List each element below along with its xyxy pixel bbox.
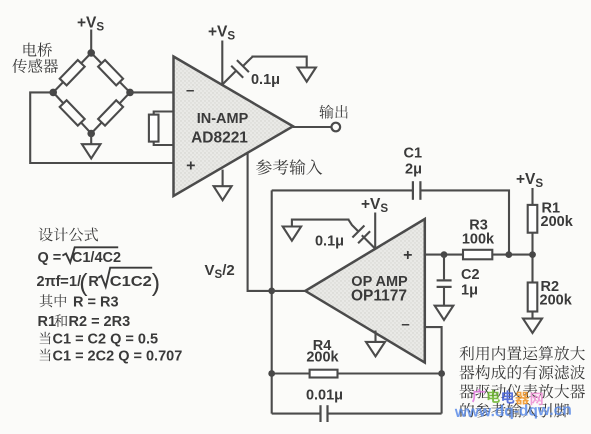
svg-text:200k: 200k bbox=[306, 350, 339, 366]
wire cap to ground (op-amp) bbox=[292, 220, 350, 227]
wire op-amp - input bbox=[425, 327, 442, 373]
label design formulas 设计公式 bbox=[39, 228, 99, 242]
svg-text:C1C2: C1C2 bbox=[110, 274, 152, 290]
wire output bbox=[293, 126, 332, 128]
resistor R3 bbox=[463, 250, 492, 259]
label bridge sensor 电桥传感器 bbox=[24, 43, 53, 57]
svg-text:R = R3: R = R3 bbox=[73, 294, 119, 310]
wire in-amp to ground bbox=[222, 170, 224, 187]
op-amp U2 OP1177 body bbox=[305, 219, 425, 363]
resistor RG bbox=[149, 115, 159, 142]
node bridge bottom bbox=[87, 130, 95, 138]
svg-text:200k: 200k bbox=[541, 214, 574, 230]
wire R2 to ground bbox=[531, 312, 533, 320]
svg-text:1μ: 1μ bbox=[461, 283, 478, 299]
wire reference input bbox=[248, 152, 271, 291]
capacitor C bypass 0.1u (in-amp) bbox=[223, 71, 236, 84]
svg-text:100k: 100k bbox=[462, 232, 495, 248]
svg-text:R2 = 2R3: R2 = 2R3 bbox=[69, 314, 131, 330]
wire +VS to in-amp bbox=[221, 41, 223, 86]
wire cap to ground (in-amp) bbox=[252, 57, 307, 68]
svg-text:–: – bbox=[401, 316, 409, 333]
node B bbox=[505, 251, 512, 258]
wire RG stub bottom bbox=[154, 141, 173, 145]
capacitor C2 bbox=[437, 279, 452, 281]
resistor bridge bottom-left arm bbox=[60, 100, 85, 125]
svg-text:C1: C1 bbox=[404, 146, 423, 162]
wire R3 to node B bbox=[492, 254, 532, 256]
svg-text:C2: C2 bbox=[461, 267, 480, 283]
resistor bridge bottom-right arm bbox=[98, 100, 123, 125]
svg-text:200k: 200k bbox=[540, 293, 573, 309]
capacitor C bypass 0.1u (op-amp) bbox=[362, 235, 375, 248]
capacitor C feedback 0.01u bbox=[319, 405, 321, 422]
node bridge left bbox=[49, 89, 57, 97]
ground (bridge) bbox=[82, 144, 101, 158]
svg-text:=: = bbox=[60, 274, 68, 290]
caption line3 器驱动仪表放大器 bbox=[459, 384, 585, 399]
svg-text:www.dq-dqw.cn: www.dq-dqw.cn bbox=[454, 402, 572, 421]
resistor bridge top-right arm bbox=[98, 60, 123, 85]
formula Q2 bbox=[40, 349, 51, 362]
svg-text:0.1μ: 0.1μ bbox=[251, 72, 280, 88]
resistor bridge top-left arm bbox=[60, 60, 85, 85]
svg-text:2πf: 2πf bbox=[37, 274, 61, 290]
wire R4 right bbox=[338, 372, 442, 374]
resistor R1 bbox=[528, 205, 538, 233]
ground (in-amp) bbox=[214, 186, 232, 200]
ground (in-amp bypass) bbox=[298, 68, 316, 82]
wire R4 left bbox=[272, 372, 310, 374]
svg-text:Q =: Q = bbox=[38, 250, 62, 266]
svg-text:C1/4C2: C1/4C2 bbox=[72, 250, 121, 266]
wire op-amp to ground bbox=[374, 331, 376, 343]
ground (R2) bbox=[523, 319, 542, 333]
svg-text:): ) bbox=[152, 269, 160, 297]
node R4 left bbox=[268, 370, 275, 377]
svg-text:IN-AMP: IN-AMP bbox=[197, 111, 249, 127]
wire C1 to node B bbox=[421, 190, 509, 254]
svg-text:C1 = 2C2 Q = 0.707: C1 = 2C2 Q = 0.707 bbox=[53, 348, 183, 364]
node R1 R2 R3 bbox=[529, 251, 536, 258]
resistor R2 bbox=[528, 283, 538, 312]
svg-text:2μ: 2μ bbox=[405, 162, 422, 178]
wire node A vertical bbox=[271, 190, 273, 413]
wire R1 to R2 bbox=[531, 233, 533, 283]
wire bridge left to in-amp + input bbox=[30, 92, 172, 163]
label reference input 参考输入 bbox=[256, 159, 322, 175]
wire 0.01u right bbox=[328, 413, 441, 415]
wire +VS to bridge top bbox=[90, 30, 92, 53]
svg-text:+: + bbox=[186, 158, 195, 175]
svg-text:0.01μ: 0.01μ bbox=[306, 387, 343, 403]
ground (C2) bbox=[435, 306, 454, 320]
svg-text:0.1μ: 0.1μ bbox=[315, 234, 344, 250]
formula Q1 bbox=[40, 332, 51, 345]
node C2 junction bbox=[441, 251, 448, 258]
caption line4 的参考输入引脚 bbox=[460, 403, 569, 418]
wire +VS to R1 bbox=[531, 188, 533, 205]
wire C2 stem bbox=[443, 255, 445, 280]
wire feedback right vertical bbox=[441, 374, 443, 414]
op-amp U1 IN-AMP AD8221 body bbox=[174, 57, 294, 197]
wire RG stub top bbox=[154, 112, 173, 116]
capacitor C1 bbox=[412, 181, 414, 200]
svg-text:R: R bbox=[88, 274, 99, 290]
node bridge right bbox=[126, 89, 134, 97]
wire op-amp + input bbox=[425, 254, 463, 256]
node A (op-amp output) bbox=[268, 288, 275, 295]
svg-text:(: ( bbox=[79, 269, 88, 297]
svg-text:AD8221: AD8221 bbox=[191, 130, 248, 147]
svg-text:OP1177: OP1177 bbox=[351, 288, 407, 305]
wire bridge bottom to ground bbox=[90, 134, 92, 145]
resistor R4 bbox=[310, 370, 338, 378]
wire bridge diamond bbox=[53, 53, 130, 134]
ground (op-amp) bbox=[366, 342, 385, 356]
wire +VS to op-amp bbox=[374, 213, 376, 249]
wire op-amp output bbox=[272, 290, 306, 292]
node R4 right bbox=[438, 370, 445, 377]
formula R=R3 bbox=[40, 294, 67, 307]
label output 输出 bbox=[319, 105, 347, 119]
ground (op-amp bypass) bbox=[283, 227, 301, 241]
svg-text:R1: R1 bbox=[38, 314, 57, 330]
wire 0.01u left bbox=[272, 413, 320, 415]
caption line2 器构成的有源滤波 bbox=[459, 365, 585, 380]
svg-text:+: + bbox=[403, 247, 412, 264]
svg-text:–: – bbox=[186, 82, 194, 99]
watermark 广电电器网 bbox=[472, 389, 485, 403]
caption line1 利用内置运算放大 bbox=[459, 346, 585, 361]
wire bridge right to in-amp - input bbox=[130, 91, 173, 93]
terminal output bbox=[332, 123, 341, 132]
wire to C1 bbox=[272, 189, 413, 191]
node bridge top bbox=[87, 49, 95, 57]
svg-text:C1 = C2 Q = 0.5: C1 = C2 Q = 0.5 bbox=[53, 331, 159, 347]
